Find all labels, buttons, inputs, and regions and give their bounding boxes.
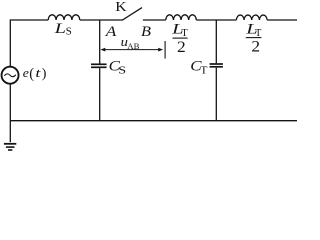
- svg-text:2: 2: [177, 39, 186, 56]
- svg-text:AB: AB: [127, 41, 139, 51]
- svg-text:(: (: [29, 66, 34, 82]
- svg-text:T: T: [200, 65, 208, 76]
- svg-text:S: S: [118, 65, 126, 76]
- svg-text:S: S: [66, 26, 73, 37]
- svg-text:t: t: [35, 65, 41, 80]
- svg-text:L: L: [53, 21, 66, 37]
- svg-text:K: K: [115, 0, 126, 14]
- svg-text:T: T: [181, 28, 188, 39]
- svg-text:): ): [42, 67, 47, 82]
- svg-text:A: A: [105, 24, 118, 40]
- svg-text:B: B: [141, 24, 151, 40]
- svg-text:2: 2: [251, 39, 260, 56]
- svg-text:T: T: [255, 28, 262, 39]
